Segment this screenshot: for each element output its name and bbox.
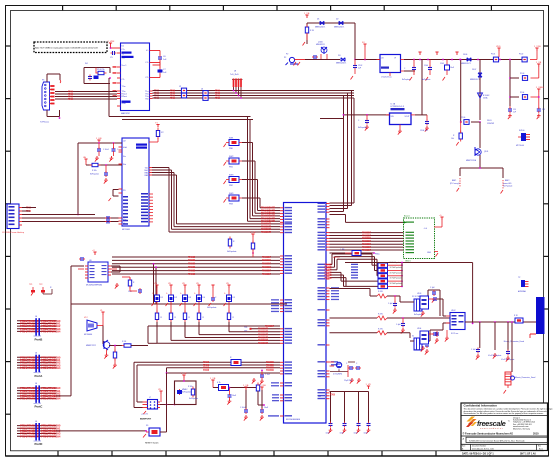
svg-text:BAT1: BAT1 xyxy=(452,179,456,182)
svg-text:Rst: Rst xyxy=(123,163,126,166)
cap column NoPopulate xyxy=(207,285,217,309)
svg-text:freescale: freescale xyxy=(477,419,506,428)
svg-text:10uF: 10uF xyxy=(450,67,454,69)
svg-text:D2: D2 xyxy=(175,297,177,299)
diode D106 on rail xyxy=(461,54,471,65)
LED D4 column xyxy=(194,283,205,336)
cap C5 above U1 xyxy=(110,51,117,59)
svg-text:PortC: PortC xyxy=(35,404,44,408)
svg-text:PTA0/KBD0XTR: PTA0/KBD0XTR xyxy=(261,231,271,234)
IC U7 LP2989 xyxy=(386,103,415,135)
wire bundle ports to MCU mid xyxy=(112,256,280,276)
R/C cluster left of U1 xyxy=(84,63,111,84)
wire bundle MCU to green box xyxy=(330,231,404,251)
cap C102 xyxy=(351,60,363,80)
svg-text:►PTB4/TPM4CH4: ►PTB4/TPM4CH4 xyxy=(39,434,61,438)
svg-text:SW: SW xyxy=(318,396,321,398)
svg-text:ExtIRQn: ExtIRQn xyxy=(333,256,340,259)
caps C51 C52 xyxy=(508,96,545,119)
svg-text:TP6: TP6 xyxy=(244,327,247,329)
svg-text:Vcc 1: Vcc 1 xyxy=(122,65,128,67)
svg-text:PTA0/KB: PTA0/KB xyxy=(203,369,209,372)
svg-text:X2: X2 xyxy=(412,336,414,338)
svg-text:J?: J? xyxy=(149,397,151,399)
Q100 pnp xyxy=(305,42,340,60)
svg-text:1_VRF: 1_VRF xyxy=(108,41,115,43)
LED D5 column xyxy=(224,283,235,339)
BAT labels xyxy=(450,167,512,193)
svg-text:C 1uF: C 1uF xyxy=(471,349,476,351)
svg-text:GND: GND xyxy=(122,103,127,105)
wire U102 to resonator bar xyxy=(465,321,536,323)
svg-text:PTA0/K: PTA0/K xyxy=(330,393,335,396)
svg-text:PTA0/KBD: PTA0/KBD xyxy=(325,277,332,280)
svg-text:MC34940/MPR084: MC34940/MPR084 xyxy=(86,285,102,287)
cap C7 (charge pump bottom) xyxy=(153,63,168,78)
TP cluster ANT xyxy=(518,277,529,293)
U2 right pin hatch lower xyxy=(149,194,153,222)
svg-text:PTA0/KBD0X: PTA0/KBD0X xyxy=(266,369,274,372)
jumper P101 on rail xyxy=(491,46,501,62)
R NoPopulate mid xyxy=(227,237,236,254)
note box (dashed) xyxy=(34,42,107,53)
header PortB xyxy=(17,316,61,341)
svg-text:MC34064: MC34064 xyxy=(84,334,92,336)
LED D1 column xyxy=(152,283,163,326)
svg-text:1uF: 1uF xyxy=(513,112,516,114)
R 10k vert xyxy=(451,131,462,146)
caps below resonator wire xyxy=(471,322,514,362)
row3 jumper P104 xyxy=(510,87,545,100)
U2 right pin stubs upper xyxy=(149,168,152,176)
R pullup on bottom bundle xyxy=(230,357,241,366)
svg-text:MMBT2222A: MMBT2222A xyxy=(466,159,477,162)
R mid left of U2 xyxy=(83,156,122,184)
wire second trunk feed xyxy=(122,119,253,121)
svg-text:VD: VD xyxy=(182,283,185,285)
pullup rail xyxy=(345,262,474,325)
svg-text:TP1: TP1 xyxy=(29,284,32,286)
wire U1 down-left trunk xyxy=(109,78,251,117)
svg-text:U103: U103 xyxy=(417,293,421,295)
svg-text:NoPopulate: NoPopulate xyxy=(358,126,367,129)
resistor network weave xyxy=(325,254,403,289)
svg-text:1_VREF: 1_VREF xyxy=(536,87,545,89)
svg-text:D3: D3 xyxy=(338,55,340,57)
svg-text:MBR0520LT1: MBR0520LT1 xyxy=(336,63,346,65)
svg-text:Xin: Xin xyxy=(123,156,126,158)
IRQ row xyxy=(330,249,381,259)
svg-text:MC9S08GB60: MC9S08GB60 xyxy=(286,419,301,421)
svg-text:DATE: 09-FEB-10 • DS 1 OF 1: DATE: 09-FEB-10 • DS 1 OF 1 xyxy=(462,452,494,455)
cap C103 under rail xyxy=(402,60,416,82)
resonator lower xyxy=(504,321,536,393)
svg-text:P2: P2 xyxy=(286,54,288,56)
switch SW1 xyxy=(224,137,253,150)
wire branch to LP2989 xyxy=(320,114,390,119)
svg-text:LP2989ILD-3.3: LP2989ILD-3.3 xyxy=(391,106,405,108)
svg-text:R2out: R2out xyxy=(122,95,128,98)
switch SW3 xyxy=(224,174,258,187)
caps left of U2 xyxy=(77,138,122,216)
svg-text:PortA: PortA xyxy=(35,374,44,378)
svg-text:SV100: SV100 xyxy=(519,130,524,132)
U6 right wires xyxy=(111,266,120,289)
transistor Q1 xyxy=(86,326,122,359)
svg-text:MMUN2111: MMUN2111 xyxy=(316,44,325,46)
svg-text:R5 470k: R5 470k xyxy=(97,69,104,71)
svg-text:C2-: C2- xyxy=(145,77,149,79)
wire bundle bottom long xyxy=(134,361,280,407)
svg-text:C2-: C2- xyxy=(122,79,126,81)
connector P1 DB9 xyxy=(42,80,55,111)
svg-text:PortD: PortD xyxy=(35,442,43,446)
svg-text:1_V8: 1_V8 xyxy=(366,384,372,386)
svg-text:Muenchen, Germany: Muenchen, Germany xyxy=(513,428,530,430)
svg-text:2010: 2010 xyxy=(533,432,539,435)
svg-text:U102: U102 xyxy=(451,310,456,312)
svg-text:D3: D3 xyxy=(189,297,191,299)
svg-text:Size: Size xyxy=(462,446,465,448)
xtal X1 xyxy=(400,287,440,316)
header J8 TxD_RxD taps xyxy=(230,71,243,99)
svg-text:RESET Switch: RESET Switch xyxy=(145,442,159,445)
cap C104 under rail xyxy=(422,60,432,82)
power flag 1_VRF above U1 xyxy=(108,41,118,49)
svg-text:VD: VD xyxy=(168,283,171,285)
LED D3 column xyxy=(180,283,191,333)
svg-text:U104: U104 xyxy=(417,328,421,330)
svg-text:52/6V3W: 52/6V3W xyxy=(487,123,494,125)
header PortA xyxy=(17,353,61,378)
U1 right pins xyxy=(150,51,153,99)
svg-text:+5.0: +5.0 xyxy=(423,228,427,230)
svg-text:Q101: Q101 xyxy=(484,151,488,153)
svg-text:1K NoPopulate: 1K NoPopulate xyxy=(390,266,402,269)
jumper P106 xyxy=(461,117,481,124)
svg-text:1K NoPopulate: 1K NoPopulate xyxy=(390,282,402,285)
svg-text:TxD_RxD: TxD_RxD xyxy=(230,74,239,76)
cap C6 (charge pump top) xyxy=(153,51,168,66)
power jack J P1 xyxy=(284,54,305,66)
wire trunk top to right xyxy=(71,303,287,305)
svg-text:R 470: R 470 xyxy=(378,329,383,331)
caps pair bottom xyxy=(240,385,269,421)
svg-text:No Populate: No Populate xyxy=(503,185,512,188)
svg-text:►PTB4/TPM4CH4: ►PTB4/TPM4CH4 xyxy=(39,330,61,334)
svg-text:TP7: TP7 xyxy=(244,331,247,333)
svg-text:VD: VD xyxy=(226,283,229,285)
svg-text:P104: P104 xyxy=(520,92,524,94)
diode D107 vertical xyxy=(470,69,482,81)
R after Q1 xyxy=(122,341,149,347)
xtal row1 xyxy=(330,289,401,314)
labels D101 xyxy=(487,120,494,125)
svg-text:D4: D4 xyxy=(203,297,205,299)
svg-text:1K NoPopulate: 1K NoPopulate xyxy=(390,271,402,274)
IC U3 MCU MC9S08GB60 xyxy=(284,203,327,424)
svg-text:D101: D101 xyxy=(487,120,492,122)
svg-text:NoPopulate: NoPopulate xyxy=(189,397,198,400)
svg-text:D1: D1 xyxy=(317,19,319,21)
wire rail down to LP area xyxy=(421,60,423,115)
power flags on rail xyxy=(418,52,458,55)
U2 left pins xyxy=(119,147,123,224)
svg-text:MT70S-04: MT70S-04 xyxy=(516,145,524,147)
svg-text:R 1K: R 1K xyxy=(122,341,127,343)
wire rail down x480 xyxy=(479,60,481,121)
switch SW4 xyxy=(224,193,261,206)
svg-text:Note: NOT USED in stand-alone: Note: NOT USED in stand-alone mode; U1/U… xyxy=(35,46,98,49)
row2 jumper P103 xyxy=(510,62,542,81)
svg-text:Murata_Resonator_Fixed: Murata_Resonator_Fixed xyxy=(515,376,535,379)
svg-text:DemoBoard_Schm_C06: DemoBoard_Schm_C06 xyxy=(472,449,495,451)
RESET switch S1 xyxy=(143,425,167,445)
U103 sot23 upper xyxy=(414,293,446,317)
svg-text:1_UB: 1_UB xyxy=(96,138,102,140)
svg-text:LT1121xST-xx: LT1121xST-xx xyxy=(381,77,392,79)
svg-text:D2: D2 xyxy=(336,19,338,21)
svg-text:P101: P101 xyxy=(491,54,495,56)
svg-text:D107: D107 xyxy=(472,69,476,71)
svg-text:BDMPORT: BDMPORT xyxy=(140,419,152,421)
svg-text:PTA0/KBD0XT: PTA0/KBD0XT xyxy=(262,273,271,276)
switch SW2 xyxy=(224,156,256,169)
svg-text:C104: C104 xyxy=(424,65,428,67)
svg-text:PTA0/KBD0XTR: PTA0/KBD0XTR xyxy=(258,342,268,345)
svg-text:D1: D1 xyxy=(161,297,163,299)
svg-text:VD: VD xyxy=(154,283,157,285)
IC U1 MAX3232 xyxy=(121,43,150,115)
R at Q1 right xyxy=(113,345,117,369)
svg-text:1_VB: 1_VB xyxy=(250,232,256,234)
DB9 bottom loop wire xyxy=(40,110,60,124)
svg-text:-xxx_5V: -xxx_5V xyxy=(141,414,149,416)
svg-text:1K NoPopulate: 1K NoPopulate xyxy=(390,277,402,280)
svg-text:TP2: TP2 xyxy=(39,284,42,286)
svg-text:MAX3232: MAX3232 xyxy=(121,112,131,115)
cap after LP2989 xyxy=(415,115,429,132)
svg-text:C 1pF: C 1pF xyxy=(430,287,435,289)
wire trunk bus down to MCU right xyxy=(330,91,352,212)
U3 left pin stubs xyxy=(280,208,284,416)
svg-text:Base1: Base1 xyxy=(404,216,411,218)
svg-text:C 4pF: C 4pF xyxy=(388,303,393,305)
xtal row2 to U102 xyxy=(330,314,451,334)
loop left of U2 xyxy=(109,190,119,202)
svg-text:Semiconductor, Inc. All other: Semiconductor, Inc. All other product or… xyxy=(464,412,545,415)
Y1 resonator above U2 xyxy=(149,122,164,142)
wire bus U1 to right xyxy=(153,89,355,100)
diode D2 top xyxy=(334,19,344,29)
jumper P102 on rail xyxy=(519,46,541,62)
svg-text:1_VDD: 1_VDD xyxy=(259,385,266,387)
rail junction to U4 xyxy=(354,42,380,61)
svg-text:1_VB: 1_VB xyxy=(210,378,216,380)
svg-text:1_VB: 1_VB xyxy=(243,385,249,387)
svg-text:PTA0/K: PTA0/K xyxy=(170,97,175,100)
svg-text:B 51062: B 51062 xyxy=(483,95,489,97)
svg-text:Vdd: Vdd xyxy=(123,147,127,149)
svg-text:PBsw: PBsw xyxy=(375,254,380,256)
svg-text:C51: C51 xyxy=(513,109,516,111)
crystal circle xyxy=(330,362,362,384)
jumper J2 on bus xyxy=(179,86,187,98)
svg-text:1_VB: 1_VB xyxy=(536,62,542,64)
header PortC xyxy=(17,383,61,408)
svg-text:D5: D5 xyxy=(233,297,235,299)
LED D2 column xyxy=(166,283,177,329)
svg-text:C105: C105 xyxy=(440,63,444,65)
svg-text:►PTB4/TPM4CH4: ►PTB4/TPM4CH4 xyxy=(39,366,61,370)
svg-text:1_VDD: 1_VDD xyxy=(534,46,541,48)
svg-text:PTA0/KBD0XT: PTA0/KBD0XT xyxy=(362,249,371,252)
IC U2 xyxy=(122,138,149,231)
TP resistor pair xyxy=(29,284,52,296)
svg-text:Murata_Resonator_Fixed: Murata_Resonator_Fixed xyxy=(504,340,524,343)
svg-text:R 10k: R 10k xyxy=(92,170,97,172)
BDM header xyxy=(140,389,163,421)
svg-text:R 470: R 470 xyxy=(378,314,383,316)
svg-text:U4: U4 xyxy=(381,58,383,60)
IC U6 xyxy=(85,260,111,287)
wire trunk A to MCU xyxy=(248,117,281,224)
svg-text:PTA0/K: PTA0/K xyxy=(68,98,73,101)
svg-text:1_VB: 1_VB xyxy=(304,13,310,15)
svg-text:semiconductor: semiconductor xyxy=(480,427,503,430)
svg-text:Rev: Rev xyxy=(538,446,541,448)
svg-text:P103: P103 xyxy=(520,73,524,75)
U1 left pins xyxy=(113,48,121,106)
top rail wire xyxy=(307,23,355,60)
blue resonator bar xyxy=(504,297,545,343)
main rail right xyxy=(404,59,527,71)
wire portC right end to trunk xyxy=(57,304,72,396)
green box right pins xyxy=(434,215,444,257)
svg-text:PortB: PortB xyxy=(35,337,43,341)
bundle taps down near LED area xyxy=(122,263,157,304)
svg-text:SC70 osc: SC70 osc xyxy=(451,333,458,335)
xtal row3 xyxy=(330,329,411,339)
IC U102 xyxy=(445,310,470,342)
svg-text:MC9S08: MC9S08 xyxy=(122,229,131,231)
svg-text:Document Number: Document Number xyxy=(472,445,487,448)
varactor box loop xyxy=(175,373,198,405)
svg-text:R 10k: R 10k xyxy=(188,386,193,388)
svg-text:PTA0/KBD: PTA0/KBD xyxy=(188,273,195,276)
svg-text:C104 1uF: C104 1uF xyxy=(420,130,429,132)
svg-text:►PTB4/TPM4CH4: ►PTB4/TPM4CH4 xyxy=(39,397,61,401)
svg-text:PA3: PA3 xyxy=(145,174,148,177)
DB9 top loop wire xyxy=(47,74,61,83)
module box (green dashed) xyxy=(404,216,435,263)
U3 right pin stubs xyxy=(326,204,330,399)
svg-text:MBR0520LT1: MBR0520LT1 xyxy=(334,27,344,29)
svg-text:TxPGxxxx: TxPGxxxx xyxy=(40,122,49,124)
R TP mid xyxy=(250,232,256,257)
svg-text:C52: C52 xyxy=(542,109,545,111)
svg-text:NoPopulate: NoPopulate xyxy=(207,306,216,309)
svg-text:22pF 22pF: 22pF 22pF xyxy=(344,380,352,382)
svg-text:ICS08-GB: Demonstration Board: ICS08-GB: Demonstration Board (RS-232 1)… xyxy=(469,439,525,442)
svg-text:VD: VD xyxy=(158,389,161,391)
U3 right outside labels xyxy=(331,287,339,365)
wire trunk x460 down xyxy=(460,59,462,133)
LED column drops xyxy=(148,322,280,345)
svg-text:VD: VD xyxy=(196,283,199,285)
U6 left wires xyxy=(71,250,97,304)
svg-text:MBR0520LT1: MBR0520LT1 xyxy=(315,27,325,29)
diode D1 top xyxy=(315,19,325,29)
svg-text:MBR0520LT1: MBR0520LT1 xyxy=(470,79,480,81)
svg-text:NoPopulate: NoPopulate xyxy=(227,250,236,253)
cap C105 under rail xyxy=(440,60,454,81)
svg-text:SHT 1 OF 1 A0: SHT 1 OF 1 A0 xyxy=(520,452,536,455)
IC U4 LT1121 xyxy=(377,55,405,79)
svg-text:P102: P102 xyxy=(519,54,523,56)
svg-text:Basic: Basic xyxy=(539,448,543,450)
cap on bundle right xyxy=(252,370,271,385)
jumper J3 on bus xyxy=(201,89,208,101)
svg-text:VDD: VDD xyxy=(496,46,501,48)
connector J1 xyxy=(2,204,25,234)
svg-text:4.7k: 4.7k xyxy=(217,382,221,384)
R 1K before bar xyxy=(514,315,523,323)
svg-text:NoPopulate: NoPopulate xyxy=(182,391,191,394)
svg-text:GND: GND xyxy=(427,252,432,254)
R 4.7k cluster xyxy=(210,378,265,406)
U3 left outside labels xyxy=(268,299,279,416)
svg-text:P106: P106 xyxy=(461,117,465,119)
MCU bottom caps row xyxy=(318,384,371,435)
svg-text:C1-: C1- xyxy=(145,62,149,64)
svg-text:PJ: PJ xyxy=(284,57,286,59)
diode D3 on rail xyxy=(336,55,346,65)
resistor R vert topleft xyxy=(303,13,315,46)
xtal X2 lower xyxy=(410,323,450,355)
VT10W symbol right xyxy=(516,130,530,147)
wire 4th line to green box xyxy=(330,98,404,222)
zener B vertical xyxy=(478,93,490,100)
svg-text:J1 PWR&Comm Hookup: J1 PWR&Comm Hookup xyxy=(2,232,25,234)
header PortE xyxy=(17,421,61,446)
MC34064 cone xyxy=(84,310,105,336)
svg-text:D106: D106 xyxy=(463,54,467,56)
wire rail branch x510 down xyxy=(509,59,511,106)
svg-text:MBR0520LT1: MBR0520LT1 xyxy=(461,63,471,65)
svg-text:R 470: R 470 xyxy=(378,291,383,293)
wire bus DB9 to U1 xyxy=(55,90,117,101)
svg-text:© Freescale Semiconductor Muen: © Freescale Semiconductor Muenchen-AG xyxy=(463,432,514,435)
svg-text:Confidential Information: Confidential Information xyxy=(464,404,498,408)
wire bundle lower to MCU xyxy=(148,325,280,328)
svg-text:C 4pF: C 4pF xyxy=(396,324,401,326)
title block xyxy=(461,403,553,455)
bus labels near U1 output xyxy=(154,89,159,100)
svg-text:MMBT2222: MMBT2222 xyxy=(86,345,96,347)
svg-text:(PL2 recept): (PL2 recept) xyxy=(450,182,460,185)
svg-text:10k: 10k xyxy=(451,138,454,140)
BDM wires xyxy=(160,373,175,432)
antenna transistor xyxy=(466,122,503,178)
svg-text:C 10uF: C 10uF xyxy=(103,149,110,151)
U104 sot23 lower xyxy=(414,328,440,352)
wire portE to reset xyxy=(57,430,147,432)
svg-text:T1in: T1in xyxy=(122,86,126,88)
svg-text:1_VB: 1_VB xyxy=(181,373,187,375)
wires J1 to U2 xyxy=(22,206,119,223)
wire trunk B U2 to MCU xyxy=(152,168,280,234)
